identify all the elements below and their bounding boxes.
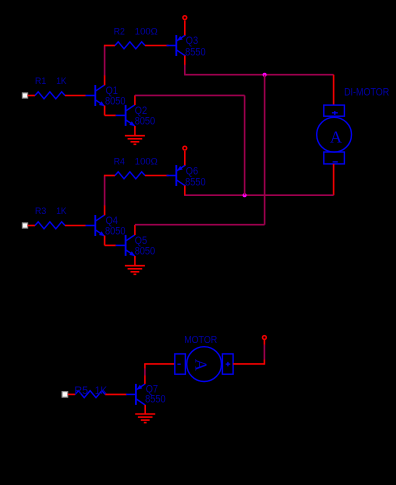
wire <box>68 393 75 395</box>
svg-text:8550: 8550 <box>185 176 206 188</box>
wire Q4 collector stub <box>104 205 106 215</box>
wire Q6 collector stub <box>184 186 186 196</box>
wire <box>264 75 266 225</box>
value 1K (R3) <box>56 206 67 217</box>
wire <box>263 345 265 360</box>
svg-text:8050: 8050 <box>135 245 156 257</box>
label MOTOR <box>184 335 217 346</box>
motor M2 A glyph <box>191 359 210 371</box>
junction node <box>263 73 267 77</box>
wire <box>65 225 86 227</box>
label Q5 <box>135 235 147 247</box>
wire Q7 emitter to motor <box>144 364 175 384</box>
motor M2 minus mark <box>177 363 180 365</box>
svg-text:R1: R1 <box>35 76 46 87</box>
wire <box>28 95 35 97</box>
transistor Q4 <box>86 215 105 236</box>
wire Q7 collector <box>144 405 146 414</box>
value 1K (R5) <box>95 385 108 397</box>
value 8550 (Q3) <box>185 46 206 58</box>
wire net MOTOR- <box>184 194 334 196</box>
transistor Q2 <box>116 105 135 126</box>
resistor R5 <box>75 391 105 398</box>
wire Q4 emitter to Q5 base <box>105 236 116 246</box>
input terminal J3 <box>62 392 68 398</box>
wire <box>104 45 115 47</box>
label Q2 <box>135 105 147 117</box>
wire <box>104 175 115 177</box>
wire <box>104 176 106 206</box>
label R1 <box>35 76 46 87</box>
value 8050 (Q1) <box>105 95 126 107</box>
svg-text:8550: 8550 <box>145 393 166 405</box>
wire Q1 emitter to Q2 base <box>105 106 116 116</box>
wire <box>104 46 106 76</box>
svg-text:8050: 8050 <box>105 95 126 107</box>
svg-text:8050: 8050 <box>105 225 126 237</box>
value 8550 (Q7) <box>145 393 166 405</box>
wire <box>333 75 335 106</box>
wire <box>144 369 146 376</box>
value 100&#937; (R4) <box>135 156 158 167</box>
wire net MOTOR+ <box>184 74 334 76</box>
label DI-MOTOR <box>344 86 389 98</box>
label R2 <box>114 26 125 37</box>
wire <box>135 224 265 226</box>
label R3 <box>35 206 46 217</box>
wire <box>263 340 265 365</box>
transistor Q6 <box>167 165 186 186</box>
label Q7 <box>146 383 158 395</box>
wire <box>184 151 186 165</box>
svg-text:100Ω: 100Ω <box>135 156 158 167</box>
ground <box>135 414 155 423</box>
transistor Q7 <box>126 384 145 405</box>
svg-text:R2: R2 <box>114 26 125 37</box>
label Q1 <box>106 85 118 97</box>
svg-text:8550: 8550 <box>185 46 206 58</box>
wire Q5 collector stub <box>134 225 136 235</box>
transistor Q5 <box>116 235 135 256</box>
motor M1 A glyph <box>330 127 342 146</box>
resistor R3 <box>35 222 65 229</box>
resistor R2 <box>115 42 145 49</box>
input terminal J1 <box>22 93 27 98</box>
svg-text:A: A <box>191 359 210 371</box>
svg-text:DI-MOTOR: DI-MOTOR <box>344 86 389 98</box>
value 100&#937; (R2) <box>135 26 158 37</box>
wire Q3 collector stub <box>184 56 186 65</box>
motor M1 bottom box <box>324 152 345 164</box>
transistor Q3 <box>167 35 186 56</box>
motor M1 plus mark <box>332 111 338 115</box>
power terminal V3 <box>263 336 267 340</box>
label R5 <box>74 385 88 397</box>
motor M2 right box <box>222 354 233 374</box>
wire <box>28 225 35 227</box>
wire <box>184 65 186 75</box>
wire Q2 collector stub <box>134 95 136 105</box>
wire <box>135 94 245 96</box>
motor M2 left box <box>175 354 186 374</box>
wire <box>233 363 264 365</box>
transistor Q1 <box>86 85 105 106</box>
power terminal VCC2 <box>183 146 187 150</box>
value 8050 (Q2) <box>135 115 156 127</box>
motor M1 top box <box>324 105 345 116</box>
label Q4 <box>106 215 118 227</box>
motor M2 body <box>187 347 222 382</box>
wire Q1 collector stub <box>104 75 106 85</box>
motor M1 body <box>317 117 352 152</box>
value 1K (R1) <box>56 76 67 87</box>
svg-text:MOTOR: MOTOR <box>184 335 217 346</box>
svg-text:100Ω: 100Ω <box>135 26 158 37</box>
value 8550 (Q6) <box>185 176 206 188</box>
motor M1 minus mark <box>333 161 338 163</box>
svg-text:8050: 8050 <box>135 115 156 127</box>
wire Q5 emitter <box>134 256 136 266</box>
input terminal J2 <box>22 223 27 228</box>
svg-text:R5: R5 <box>74 385 88 397</box>
label R4 <box>114 156 125 167</box>
value 8050 (Q4) <box>105 225 126 237</box>
wire <box>145 45 169 47</box>
svg-text:1K: 1K <box>56 76 67 87</box>
svg-text:R3: R3 <box>35 206 46 217</box>
svg-text:1K: 1K <box>56 206 67 217</box>
label Q6 <box>186 165 198 177</box>
wire Q2 emitter <box>134 126 136 136</box>
ground <box>125 266 145 275</box>
wire <box>65 95 86 97</box>
wire <box>244 95 246 195</box>
ground <box>125 136 145 145</box>
power terminal VCC1 <box>183 16 187 20</box>
resistor R1 <box>35 92 65 99</box>
wire <box>333 164 335 195</box>
svg-text:Q3: Q3 <box>186 35 198 47</box>
resistor R4 <box>115 172 145 179</box>
wire <box>145 175 169 177</box>
junction node <box>243 193 247 197</box>
svg-text:A: A <box>330 127 342 146</box>
wire <box>184 20 186 35</box>
value 8050 (Q5) <box>135 245 156 257</box>
wire <box>105 393 126 395</box>
svg-text:R4: R4 <box>114 156 125 167</box>
motor M2 plus mark <box>226 362 231 366</box>
label Q3 <box>186 35 198 47</box>
